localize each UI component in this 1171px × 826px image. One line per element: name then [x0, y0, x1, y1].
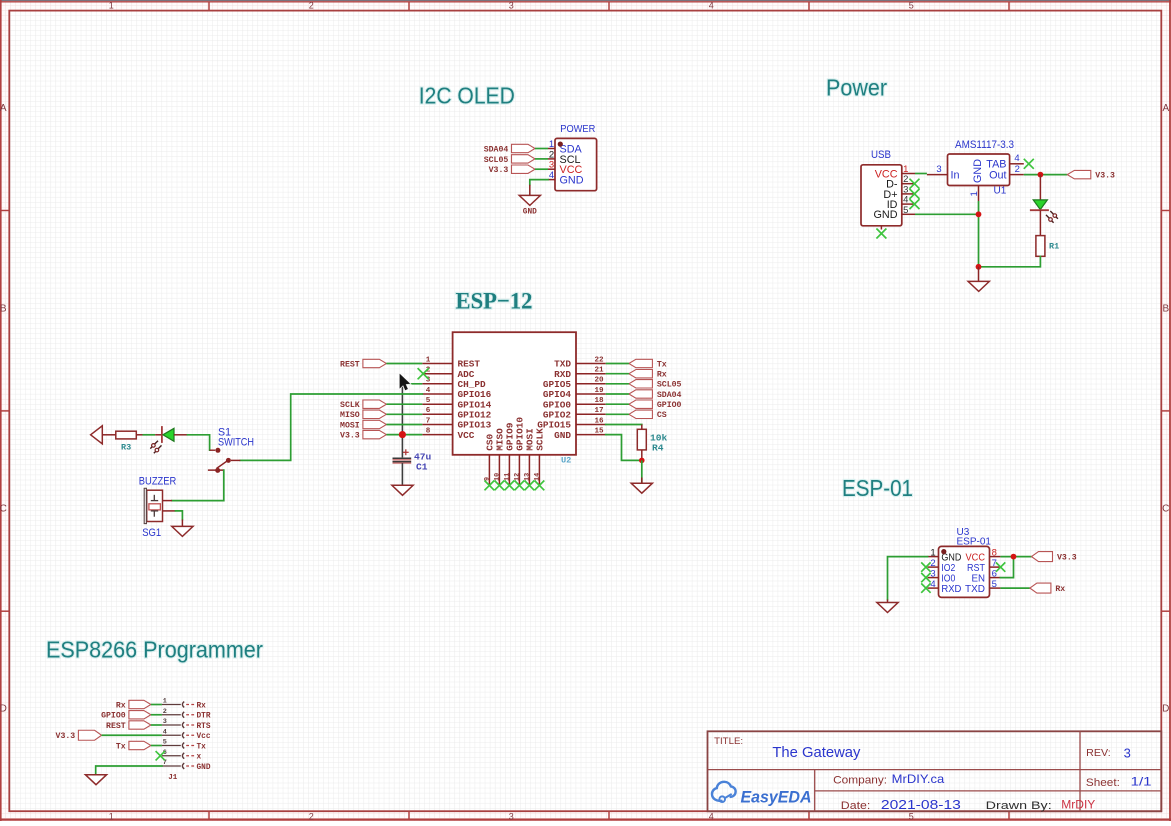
svg-text:VCC: VCC: [458, 430, 475, 441]
svg-text:3: 3: [509, 811, 514, 821]
svg-text:5: 5: [903, 205, 908, 216]
wire pin 20 to SCL05: [606, 383, 629, 385]
svg-text:5: 5: [163, 739, 167, 747]
svg-text:2: 2: [309, 1, 314, 11]
svg-text:A: A: [1162, 103, 1169, 114]
LED D1 power indicator: [1030, 175, 1058, 236]
wire U1 Out to V3.3: [1024, 174, 1068, 176]
svg-text:GPIO0: GPIO0: [101, 712, 126, 721]
svg-text:19: 19: [594, 387, 604, 395]
svg-text:22: 22: [594, 356, 604, 364]
svg-text:USB: USB: [871, 149, 891, 161]
wire MOSI to pin 7: [386, 424, 422, 426]
svg-text:8: 8: [426, 427, 431, 435]
wire GPIO15 to R4: [606, 425, 642, 430]
svg-text:TXD: TXD: [965, 584, 985, 595]
no-connect X on ESP-01 IO0: [921, 573, 930, 582]
svg-text:GND: GND: [874, 209, 898, 221]
svg-text:D: D: [1162, 704, 1169, 715]
svg-text:C: C: [0, 504, 7, 515]
ground GND (I2C OLED): [519, 195, 540, 216]
svg-text:MISO: MISO: [340, 411, 360, 420]
svg-text:GND: GND: [554, 430, 571, 441]
net flag MISO: [340, 410, 386, 420]
junction VCC / C1: [399, 431, 406, 438]
svg-text:3: 3: [936, 164, 941, 175]
section title ESP-12: [456, 289, 533, 315]
title block: [708, 731, 1162, 812]
wire ESP-01 GND to ground: [888, 557, 928, 603]
junction U1 GND / USB GND: [976, 211, 982, 217]
svg-text:V3.3: V3.3: [489, 166, 509, 175]
wire CH_PD pull-up: [402, 384, 422, 435]
svg-text:Power: Power: [826, 74, 887, 100]
wire LED to switch: [188, 435, 216, 450]
junction V3.3 output node: [1038, 172, 1044, 178]
svg-text:6: 6: [426, 407, 431, 415]
resistor R4 10k: [637, 429, 667, 460]
svg-text:1: 1: [549, 139, 554, 150]
net flag MOSI: [340, 420, 386, 430]
wire switch to buzzer: [172, 470, 224, 501]
svg-text:8: 8: [992, 548, 997, 559]
svg-text:REV:: REV:: [1086, 747, 1111, 759]
wire pin 19 to SDA04: [606, 393, 629, 395]
svg-text:Sheet:: Sheet:: [1086, 777, 1120, 789]
section title ESP8266 Programmer: [46, 637, 263, 663]
svg-text:4: 4: [163, 728, 167, 736]
net flag SDA04: [484, 144, 535, 154]
svg-text:ESP8266 Programmer: ESP8266 Programmer: [46, 637, 263, 663]
net flag Tx (ESP-12 right): [629, 359, 667, 369]
svg-text:SCL05: SCL05: [657, 381, 682, 390]
svg-text:V3.3: V3.3: [340, 432, 360, 441]
no-connect X on USB ID: [910, 199, 920, 209]
svg-text:C1: C1: [416, 461, 428, 472]
net flag GPIO0 (ESP-12 right): [629, 400, 682, 410]
svg-text:REST: REST: [340, 360, 360, 369]
svg-text:ESP−12: ESP−12: [456, 289, 533, 315]
no-connect X on U1 TAB: [1024, 159, 1034, 169]
svg-text:I2C OLED: I2C OLED: [419, 83, 515, 109]
wire REST to J1 pin 3: [151, 724, 162, 726]
net flag V3.3 (ESP-12): [340, 430, 386, 440]
net flag SCLK: [340, 400, 386, 410]
svg-text:1/1: 1/1: [1131, 775, 1152, 789]
svg-text:In: In: [951, 170, 960, 182]
svg-text:GND: GND: [972, 159, 984, 183]
svg-text:TITLE:: TITLE:: [714, 736, 743, 746]
svg-text:EasyEDA: EasyEDA: [741, 788, 812, 806]
svg-text:4: 4: [709, 1, 714, 11]
svg-text:C: C: [1162, 504, 1169, 515]
svg-text:GND: GND: [197, 764, 211, 772]
svg-text:6: 6: [992, 569, 997, 580]
svg-text:MOSI: MOSI: [340, 421, 360, 430]
svg-text:Tx: Tx: [197, 743, 207, 751]
section title Power: [826, 74, 887, 100]
section title ESP-01: [842, 475, 913, 501]
net flag V3.3 (ESP-01): [1032, 552, 1077, 563]
wire SCLK to pin 5: [386, 403, 422, 405]
svg-text:EN: EN: [972, 574, 986, 585]
svg-text:11: 11: [503, 473, 511, 481]
svg-text:Rx: Rx: [116, 701, 126, 710]
svg-text:SG1: SG1: [142, 527, 161, 539]
svg-text:SCLK: SCLK: [340, 401, 360, 410]
svg-text:GND: GND: [560, 175, 584, 187]
svg-text:2: 2: [930, 558, 935, 569]
wire V3.3 to J1 pin 4: [102, 734, 162, 736]
wire pin 18 to GPIO0: [606, 403, 629, 405]
svg-text:J1: J1: [168, 774, 178, 782]
svg-text:20: 20: [594, 377, 604, 385]
no-connect X on ESP-01 RXD: [921, 583, 930, 592]
svg-text:VCC: VCC: [966, 553, 986, 564]
svg-text:DTR: DTR: [197, 713, 211, 721]
svg-text:5: 5: [992, 579, 997, 590]
wire USB GND to U1 GND node: [915, 213, 979, 215]
svg-text:Tx: Tx: [657, 360, 667, 369]
wire pin 21 to Rx: [606, 373, 629, 375]
svg-text:5: 5: [909, 1, 914, 11]
net flag SDA04 (ESP-12 right): [629, 390, 682, 400]
wire Rx to J1 pin 1: [151, 704, 162, 706]
LED D2 (switch indicator): [150, 426, 187, 453]
resistor R1: [1036, 236, 1059, 257]
svg-text:15: 15: [594, 427, 604, 435]
capacitor C1 47u: [393, 438, 432, 485]
svg-text:21: 21: [594, 367, 604, 375]
svg-text:AMS1117-3.3: AMS1117-3.3: [955, 139, 1014, 151]
no-connect X on ESP-12 ADC pin 2: [418, 368, 429, 379]
svg-text:V3.3: V3.3: [56, 732, 76, 741]
no-connect X on USB D-: [910, 179, 920, 189]
wire pin 17 to CS: [606, 413, 629, 415]
svg-text:2021-08-13: 2021-08-13: [881, 798, 961, 812]
net flag arrow (left): [91, 426, 116, 444]
svg-text:SCL05: SCL05: [484, 156, 509, 165]
svg-text:1: 1: [109, 1, 114, 11]
module U2 ESP-12: [422, 332, 605, 485]
svg-text:Rx: Rx: [1055, 585, 1065, 594]
connector J1 programming header: [162, 698, 211, 782]
connector POWER (I2C OLED header): [548, 123, 597, 191]
wire SCL05 to POWER pin 2: [535, 158, 548, 160]
net flag SCL05: [484, 155, 535, 165]
svg-text:IO0: IO0: [941, 574, 955, 585]
svg-text:2: 2: [309, 811, 314, 821]
svg-text:POWER: POWER: [560, 123, 595, 135]
svg-text:Vcc: Vcc: [197, 733, 211, 741]
svg-text:3: 3: [930, 569, 935, 580]
svg-text:10: 10: [493, 473, 501, 481]
svg-text:7: 7: [426, 417, 431, 425]
junction R4 / GND: [639, 458, 645, 464]
svg-text:GPIO0: GPIO0: [657, 401, 682, 410]
net flag V3.3 (Power): [1067, 170, 1115, 180]
svg-text:16: 16: [594, 417, 604, 425]
svg-text:CS: CS: [657, 411, 667, 420]
svg-text:A: A: [0, 103, 7, 114]
svg-text:4: 4: [709, 811, 714, 821]
svg-text:RTS: RTS: [197, 723, 211, 731]
svg-text:U1: U1: [994, 186, 1007, 197]
svg-text:5: 5: [909, 811, 914, 821]
no-connect X on J1 pin 6: [156, 751, 165, 760]
svg-text:V3.3: V3.3: [1095, 172, 1115, 181]
svg-text:B: B: [0, 303, 7, 314]
net flag REST: [340, 359, 386, 369]
wire USB VCC to U1 In: [915, 173, 927, 175]
svg-text:1: 1: [163, 698, 167, 706]
svg-text:R4: R4: [652, 443, 664, 454]
wire R1 to ground rail: [979, 256, 1041, 267]
EasyEDA logo: [712, 782, 812, 807]
net flag V3.3: [489, 165, 535, 175]
wire POWER pin 4 to ground: [530, 180, 548, 196]
svg-text:2: 2: [163, 708, 167, 716]
regulator U1 AMS1117-3.3: [927, 139, 1024, 201]
wire ESP-01 VCC to V3.3: [1000, 556, 1031, 558]
mouse cursor: [400, 374, 411, 391]
svg-text:4: 4: [1014, 153, 1019, 164]
ground (buzzer): [172, 526, 193, 536]
net flag SCL05 (ESP-12 right): [629, 380, 682, 390]
svg-text:The Gateway: The Gateway: [772, 745, 861, 761]
svg-text:IO2: IO2: [941, 563, 955, 574]
svg-text:3: 3: [509, 1, 514, 11]
wire GPIO16 to switch: [240, 394, 422, 460]
switch S1: [208, 426, 254, 473]
wire J1 pin 7 to ground: [96, 766, 162, 775]
ground (programmer): [85, 775, 106, 785]
wire V3.3 to POWER pin 3: [535, 168, 548, 170]
svg-text:4: 4: [426, 387, 431, 395]
svg-text:GND: GND: [941, 553, 961, 564]
svg-text:Rx: Rx: [657, 371, 667, 380]
svg-text:1: 1: [969, 191, 980, 196]
wire pin 22 to Tx: [606, 363, 629, 365]
svg-text:1: 1: [109, 811, 114, 821]
svg-text:Drawn By:: Drawn By:: [986, 800, 1052, 812]
module U3 ESP-01: [928, 527, 1001, 597]
no-connect X on ESP-01 RST: [996, 562, 1005, 571]
svg-text:BUZZER: BUZZER: [139, 475, 177, 487]
no-connect X below USB: [876, 229, 886, 239]
wire buzzer to ground: [176, 511, 183, 527]
svg-text:3: 3: [163, 718, 167, 726]
svg-text:14: 14: [533, 473, 541, 481]
wire U1 GND down to ground: [978, 201, 980, 267]
svg-text:R3: R3: [121, 443, 131, 453]
svg-text:Out: Out: [989, 170, 1006, 182]
svg-text:RXD: RXD: [941, 584, 961, 595]
no-connect X on USB D+: [910, 189, 920, 199]
wire SDA04 to POWER pin 1: [535, 148, 548, 150]
svg-text:R1: R1: [1049, 242, 1059, 252]
net flag Rx (ESP-01): [1030, 583, 1065, 594]
ground (R4): [631, 460, 652, 493]
ground (Power section): [968, 267, 989, 292]
svg-text:4: 4: [930, 579, 935, 590]
wire ESP-01 EN to VCC rail: [1000, 557, 1013, 578]
net flag REST (programmer): [106, 721, 151, 731]
svg-text:Tx: Tx: [116, 742, 126, 751]
wire V3.3 to VCC pin 8: [386, 434, 422, 436]
svg-text:V3.3: V3.3: [1057, 554, 1077, 563]
svg-text:3: 3: [549, 160, 554, 171]
svg-text:Rx: Rx: [197, 702, 207, 710]
svg-text:12: 12: [513, 473, 521, 481]
junction ESP-01 VCC/EN: [1011, 554, 1017, 560]
svg-text:GND: GND: [523, 209, 537, 217]
section title I2C OLED: [419, 83, 515, 109]
svg-text:ESP-01: ESP-01: [842, 475, 913, 501]
svg-text:3: 3: [1124, 745, 1131, 760]
ground (C1): [392, 485, 413, 495]
net flag Tx (programmer): [116, 741, 151, 751]
svg-text:18: 18: [594, 397, 604, 405]
buzzer SG1: [139, 475, 177, 539]
svg-text:SCLK: SCLK: [535, 428, 546, 451]
no-connect X on ESP-01 IO2: [921, 562, 930, 571]
wire ESP-01 TXD to Rx: [1000, 587, 1030, 589]
wire Tx to J1 pin 5: [151, 745, 162, 747]
net flag V3.3 (programmer): [56, 730, 102, 741]
svg-text:4: 4: [549, 170, 554, 181]
net flag GPIO0 (programmer): [101, 711, 151, 721]
svg-text:U2: U2: [561, 455, 571, 465]
net flag Rx (ESP-12 right): [629, 370, 667, 380]
svg-text:MrDIY.ca: MrDIY.ca: [892, 772, 945, 786]
svg-text:1: 1: [426, 356, 431, 364]
svg-text:Company:: Company:: [833, 775, 887, 787]
resistor R3: [116, 431, 143, 452]
svg-text:5: 5: [426, 397, 431, 405]
svg-text:RST: RST: [967, 563, 986, 574]
svg-text:13: 13: [523, 473, 531, 481]
wire MISO to pin 6: [386, 413, 422, 415]
wire ESP-12 GND pin 15 to ground: [606, 435, 642, 461]
connector USB: [861, 149, 915, 230]
svg-text:17: 17: [594, 407, 604, 415]
wire REST to pin 1: [386, 363, 422, 365]
no-connect X marks on ESP-12 bottom pins: [485, 481, 545, 491]
svg-text:B: B: [1162, 303, 1169, 314]
wire GPIO0 to J1 pin 2: [151, 714, 162, 716]
svg-text:1: 1: [930, 548, 935, 559]
svg-text:SDA04: SDA04: [657, 391, 682, 400]
svg-text:REST: REST: [106, 722, 126, 731]
svg-text:D: D: [0, 704, 7, 715]
svg-text:9: 9: [483, 477, 491, 481]
svg-text:SDA04: SDA04: [484, 145, 509, 154]
wire R3 to LED: [143, 434, 162, 436]
svg-text:SWITCH: SWITCH: [218, 437, 254, 449]
net flag CS (ESP-12 right): [629, 410, 667, 420]
svg-text:MrDIY: MrDIY: [1061, 798, 1095, 812]
junction ground rail: [976, 264, 982, 270]
svg-text:2: 2: [1015, 164, 1020, 175]
svg-text:Date:: Date:: [841, 800, 871, 812]
svg-text:x: x: [197, 754, 202, 762]
net flag Rx (programmer): [116, 700, 151, 710]
ground (ESP-01): [877, 603, 898, 613]
